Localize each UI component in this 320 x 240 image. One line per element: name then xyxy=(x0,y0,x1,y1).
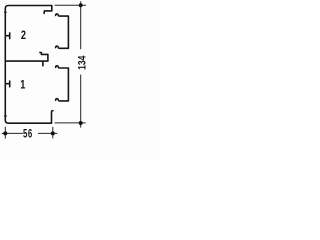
dimension 56 line right segment xyxy=(38,132,57,134)
mounting stud upper xyxy=(6,33,10,39)
wire: bottom extension line xyxy=(55,122,86,124)
svg-text:1: 1 xyxy=(20,79,25,91)
mounting stud lower xyxy=(6,81,10,87)
dimension text 134 xyxy=(76,55,88,70)
wire: top extension line xyxy=(55,4,86,6)
dim dot left of 56 xyxy=(3,131,7,135)
svg-text:134: 134 xyxy=(76,55,88,70)
svg-text:56: 56 xyxy=(23,128,33,141)
lower front rail with hooks xyxy=(56,66,69,101)
dimension 134 vertical line upper segment xyxy=(80,1,82,49)
divider clip down tick xyxy=(42,61,44,66)
dimension 56 line left segment xyxy=(2,132,23,134)
dim dot bottom of 134 xyxy=(79,121,83,125)
dim dot right of 56 xyxy=(51,131,55,135)
extension line left for 56 xyxy=(4,127,6,139)
extension line right for 56 xyxy=(52,127,54,139)
profile body: top wall, left wall, bottom wall xyxy=(5,6,53,124)
divider shelf with end clip xyxy=(6,52,48,61)
wall tick lower xyxy=(4,115,6,117)
dim dot top of 134 xyxy=(79,3,83,7)
dimension 134 vertical line lower segment xyxy=(80,75,82,128)
svg-text:2: 2 xyxy=(21,30,26,42)
upper front rail with hooks xyxy=(56,14,69,48)
top wall end hook xyxy=(44,6,52,14)
wall tick upper xyxy=(4,11,6,13)
